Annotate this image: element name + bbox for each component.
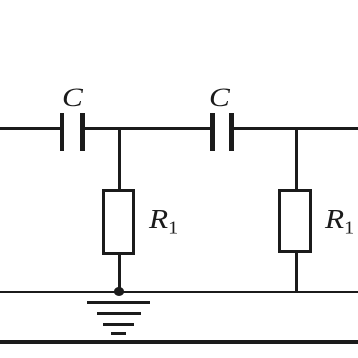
wire: ground bus line full width [0,291,358,293]
value label C (first capacitor) [62,85,83,111]
wire: from resistor R1 (first) bottom down to ground bus [118,254,121,292]
rule line at page bottom [0,340,358,344]
capacitor C (first) right plate [80,113,85,151]
capacitor C (second) left plate [210,113,215,151]
wire: vertical from signal wire down to resistor R1 (first) [118,128,121,190]
wire: input segment left of C (first) [0,127,60,130]
value label R1 (first resistor) [149,206,178,237]
capacitor C (first) left plate [60,113,65,151]
wire: from resistor R1 (second) bottom down to ground bus [295,252,298,292]
ground symbol bar 4 (shortest) [111,332,126,335]
wire: output segment right of second capacitor [234,127,358,130]
wire: vertical from signal wire down to resistor R1 (second) [295,128,298,190]
wire: segment between first capacitor and second capacitor [85,127,211,130]
value label C (second capacitor) [209,85,230,111]
resistor R1 (first) body [102,189,136,255]
node: T junction of first shunt branch on signal wire [118,129,121,130]
ground symbol bar 2 [97,312,141,315]
node: junction dot where first branch meets ground bus [114,287,125,296]
ground symbol bar 1 (longest) [87,301,150,304]
node: T junction of second shunt branch on signal wire [295,129,298,130]
capacitor C (second) right plate [229,113,234,151]
value label R1 (second resistor) [325,206,354,237]
ground symbol bar 3 [103,323,134,326]
resistor R1 (second) body [278,189,312,253]
